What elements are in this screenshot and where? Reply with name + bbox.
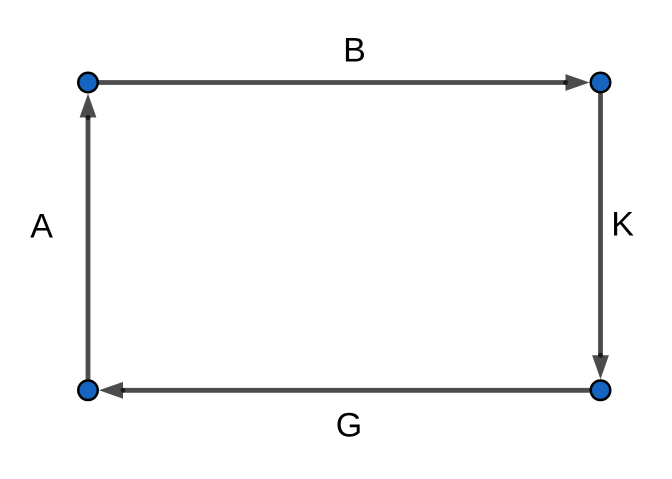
point bottom-right <box>591 381 611 401</box>
svg-text:G: G <box>336 407 362 445</box>
vector K (right edge, pointing down) <box>592 83 609 380</box>
vector B (top edge, pointing right) <box>88 74 590 91</box>
point top-right <box>591 73 611 93</box>
point top-left <box>78 73 98 93</box>
svg-text:B: B <box>343 31 366 69</box>
vector A (left edge, pointing up) <box>80 94 97 391</box>
vector G (bottom edge, pointing left) <box>99 382 601 399</box>
point bottom-left <box>78 381 98 401</box>
svg-text:A: A <box>30 208 53 246</box>
svg-text:K: K <box>611 205 634 243</box>
